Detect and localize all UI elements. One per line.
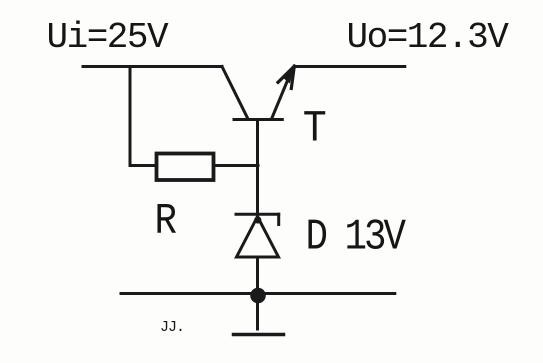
wire: input top rail [83,65,222,68]
svg-text:R: R [155,198,178,247]
wire: ground rail [121,292,395,295]
node: diode-base junction dot [254,216,261,223]
svg-text:Ui=25V: Ui=25V [47,17,170,58]
wire: output top rail [295,65,405,68]
wire: ground stem [256,295,259,329]
resistor R body [157,154,214,181]
transistor T collector lead [222,67,248,119]
wire: diode anode lead down to ground rail [256,257,259,294]
transistor T emitter arrow head [278,66,294,88]
wire: transistor base lead down to diode [256,120,259,214]
svg-text:D 13V: D 13V [306,213,407,262]
wire: resistor right lead to base node [215,164,258,167]
zener diode D cathode bar [236,213,279,216]
wire: resistor left lead [130,164,156,167]
svg-text:T: T [303,104,327,155]
ground terminal bar [234,333,284,337]
zener diode D triangle [237,217,279,258]
transistor T emitter lead [272,81,288,120]
svg-text:Uo=12.3V: Uo=12.3V [347,17,510,58]
zener diode D cathode bar bent end [277,214,280,224]
node: ground junction dot [250,288,266,304]
svg-text:JJ.: JJ. [160,319,184,336]
transistor T base bar [234,118,282,121]
wire: vertical branch from input rail down to resistor [129,67,132,166]
